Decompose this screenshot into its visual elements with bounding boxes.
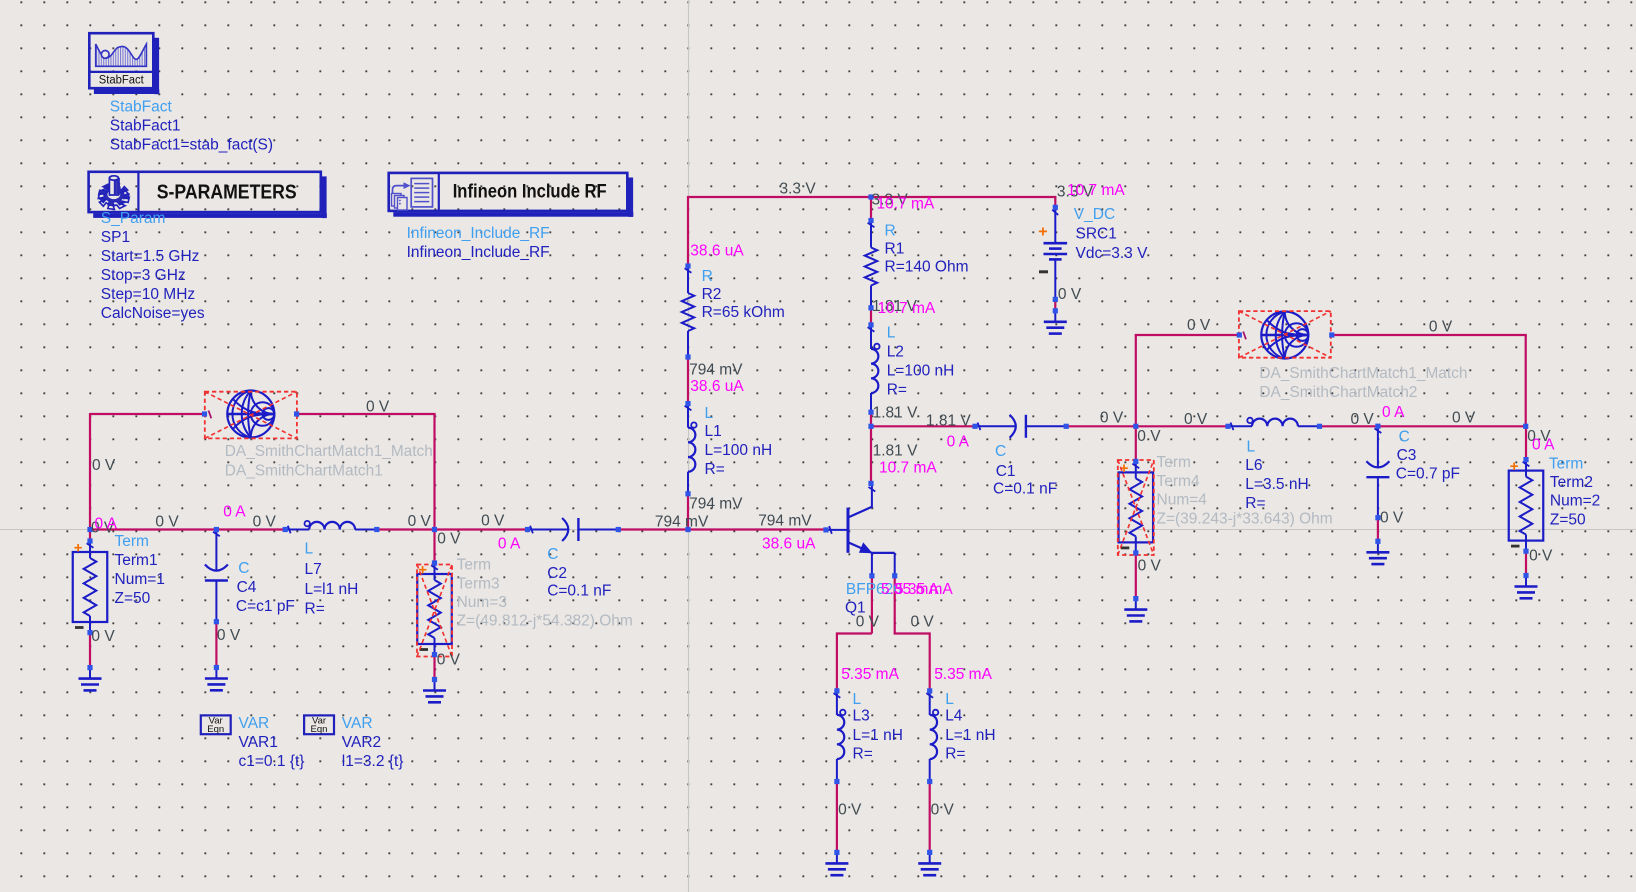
- svg-text:Term: Term: [1157, 454, 1191, 471]
- svg-text:0 V: 0 V: [1138, 558, 1162, 575]
- svg-text:C=0.1 nF: C=0.1 nF: [993, 481, 1057, 498]
- svg-text:Num=4: Num=4: [1157, 492, 1208, 509]
- svg-text:L4: L4: [945, 708, 963, 725]
- svg-text:1.81 V: 1.81 V: [873, 405, 918, 422]
- svg-text:SP1: SP1: [101, 229, 130, 246]
- svg-text:StabFact1=stab_fact(S): StabFact1=stab_fact(S): [110, 137, 273, 154]
- svg-text:L=3.5 nH: L=3.5 nH: [1245, 476, 1308, 493]
- svg-text:0 V: 0 V: [1380, 510, 1404, 527]
- svg-text:0 V: 0 V: [217, 627, 241, 644]
- svg-text:R=: R=: [1245, 495, 1265, 512]
- svg-text:10.7 mA: 10.7 mA: [878, 300, 936, 317]
- svg-text:L=1 nH: L=1 nH: [853, 727, 903, 744]
- svg-text:Z=(39.243-j*33.643) Ohm: Z=(39.243-j*33.643) Ohm: [1157, 511, 1333, 528]
- svg-text:0 V: 0 V: [92, 457, 116, 474]
- svg-text:c1=0.1 {t}: c1=0.1 {t}: [239, 753, 305, 770]
- svg-text:StabFact: StabFact: [99, 75, 145, 87]
- svg-text:Vdc=3.3 V: Vdc=3.3 V: [1076, 245, 1149, 262]
- svg-text:Term1: Term1: [115, 552, 158, 569]
- svg-text:0 V: 0 V: [838, 802, 862, 819]
- svg-text:DA_SmithChartMatch2: DA_SmithChartMatch2: [1259, 384, 1417, 401]
- svg-text:10.7 mA: 10.7 mA: [877, 196, 935, 213]
- svg-text:0 V: 0 V: [366, 399, 390, 416]
- svg-text:Z=50: Z=50: [1550, 512, 1586, 529]
- svg-text:794 mV: 794 mV: [689, 362, 743, 379]
- svg-text:794 mV: 794 mV: [758, 513, 812, 530]
- svg-text:+: +: [1510, 458, 1519, 475]
- svg-text:C: C: [1399, 429, 1410, 446]
- svg-text:Infineon Include RF: Infineon Include RF: [453, 181, 607, 202]
- svg-text:C=0.7 pF: C=0.7 pF: [1396, 466, 1460, 483]
- svg-text:10.7 mA: 10.7 mA: [1067, 182, 1125, 199]
- svg-text:L=100 nH: L=100 nH: [887, 363, 955, 380]
- svg-text:DA_SmithChartMatch1_Match: DA_SmithChartMatch1_Match: [1259, 365, 1467, 382]
- svg-text:l1=3.2 {t}: l1=3.2 {t}: [342, 753, 404, 770]
- svg-text:R1: R1: [885, 241, 905, 258]
- svg-text:C: C: [238, 560, 249, 577]
- svg-text:Eqn: Eqn: [311, 724, 328, 735]
- svg-text:1.81 V: 1.81 V: [873, 443, 918, 460]
- svg-text:0 A: 0 A: [95, 516, 118, 533]
- svg-text:V_DC: V_DC: [1074, 206, 1115, 223]
- svg-text:0 V: 0 V: [911, 614, 935, 631]
- svg-text:Term: Term: [115, 533, 149, 550]
- svg-text:R=140 Ohm: R=140 Ohm: [885, 259, 969, 276]
- svg-text:0 V: 0 V: [481, 513, 505, 530]
- svg-text:C3: C3: [1397, 447, 1417, 464]
- svg-text:C2: C2: [547, 565, 567, 582]
- svg-text:0 V: 0 V: [1452, 410, 1476, 427]
- svg-text:794 mV: 794 mV: [689, 496, 743, 513]
- svg-text:VAR: VAR: [342, 715, 373, 732]
- svg-text:Term2: Term2: [1550, 474, 1593, 491]
- svg-text:R=: R=: [945, 746, 965, 763]
- svg-text:R=: R=: [887, 382, 907, 399]
- svg-text:0 V: 0 V: [931, 802, 955, 819]
- svg-text:38.6 uA: 38.6 uA: [690, 378, 744, 395]
- svg-text:0 V: 0 V: [155, 514, 179, 531]
- svg-text:38.6 uA: 38.6 uA: [762, 536, 816, 553]
- svg-text:0 V: 0 V: [1058, 286, 1082, 303]
- svg-text:0 V: 0 V: [856, 614, 880, 631]
- svg-text:C: C: [547, 546, 558, 563]
- svg-text:0 V: 0 V: [408, 513, 432, 530]
- svg-text:0 V: 0 V: [1137, 428, 1161, 445]
- svg-text:CalcNoise=yes: CalcNoise=yes: [101, 305, 205, 322]
- svg-text:R: R: [885, 223, 896, 240]
- svg-text:Eqn: Eqn: [207, 724, 224, 735]
- svg-text:0 V: 0 V: [1429, 319, 1453, 336]
- svg-text:C=c1 pF: C=c1 pF: [236, 598, 295, 615]
- svg-text:794 mV: 794 mV: [655, 514, 709, 531]
- svg-text:L7: L7: [305, 561, 322, 578]
- svg-text:5.35 mA: 5.35 mA: [895, 581, 953, 598]
- svg-text:0 V: 0 V: [253, 514, 277, 531]
- svg-text:L3: L3: [853, 708, 870, 725]
- svg-text:3.3 V: 3.3 V: [780, 181, 817, 198]
- svg-text:C=0.1 nF: C=0.1 nF: [547, 583, 611, 600]
- svg-text:0 V: 0 V: [91, 628, 115, 645]
- svg-text:R=: R=: [305, 601, 325, 618]
- svg-text:0 A: 0 A: [498, 536, 521, 553]
- svg-text:Z=(49.812-j*54.382) Ohm: Z=(49.812-j*54.382) Ohm: [457, 613, 633, 630]
- svg-text:C1: C1: [996, 463, 1016, 480]
- svg-text:S-PARAMETERS: S-PARAMETERS: [157, 181, 297, 203]
- svg-text:VAR: VAR: [239, 715, 270, 732]
- svg-text:DA_SmithChartMatch1_Match: DA_SmithChartMatch1_Match: [225, 443, 433, 460]
- svg-text:0 V: 0 V: [1187, 317, 1211, 334]
- svg-text:StabFact: StabFact: [110, 99, 173, 116]
- svg-text:0 V: 0 V: [1529, 548, 1553, 565]
- svg-text:L: L: [1247, 439, 1256, 456]
- svg-text:+: +: [74, 540, 83, 557]
- svg-text:5.35 mA: 5.35 mA: [934, 666, 992, 683]
- svg-text:L: L: [853, 691, 862, 708]
- svg-text:0 V: 0 V: [437, 652, 461, 669]
- svg-text:SRC1: SRC1: [1076, 226, 1117, 243]
- svg-text:L6: L6: [1245, 457, 1262, 474]
- svg-text:0 A: 0 A: [1382, 404, 1405, 421]
- svg-text:Infineon_Include_RF: Infineon_Include_RF: [407, 244, 550, 261]
- svg-text:L: L: [945, 691, 954, 708]
- svg-text:R=65 kOhm: R=65 kOhm: [702, 304, 785, 321]
- svg-text:StabFact1: StabFact1: [110, 118, 181, 135]
- svg-text:Num=1: Num=1: [115, 571, 165, 588]
- svg-text:R=: R=: [853, 746, 873, 763]
- svg-text:Stop=3 GHz: Stop=3 GHz: [101, 267, 186, 284]
- svg-text:Num=3: Num=3: [457, 594, 507, 611]
- svg-text:VAR2: VAR2: [342, 734, 381, 751]
- svg-text:R2: R2: [702, 286, 722, 303]
- svg-text:0 A: 0 A: [1532, 437, 1555, 454]
- svg-text:0 A: 0 A: [223, 504, 246, 521]
- svg-text:L1: L1: [705, 423, 722, 440]
- svg-text:0 A: 0 A: [947, 434, 970, 451]
- svg-text:Term: Term: [1549, 456, 1583, 473]
- svg-text:C4: C4: [237, 579, 257, 596]
- svg-text:Z=50: Z=50: [115, 590, 151, 607]
- svg-text:S_Param: S_Param: [101, 210, 166, 227]
- svg-text:L: L: [705, 405, 714, 422]
- svg-text:Start=1.5 GHz: Start=1.5 GHz: [101, 248, 200, 265]
- svg-text:R=: R=: [705, 461, 725, 478]
- svg-text:Step=10 MHz: Step=10 MHz: [101, 286, 195, 303]
- svg-text:Infineon_Include_RF: Infineon_Include_RF: [407, 225, 550, 242]
- svg-text:Num=2: Num=2: [1550, 493, 1600, 510]
- svg-text:1.81 V: 1.81 V: [926, 413, 971, 430]
- svg-text:10.7 mA: 10.7 mA: [879, 460, 937, 477]
- svg-text:R: R: [702, 268, 713, 285]
- svg-text:C: C: [995, 443, 1006, 460]
- svg-text:+: +: [1038, 224, 1047, 241]
- svg-text:0 V: 0 V: [437, 531, 461, 548]
- svg-text:38.6 uA: 38.6 uA: [690, 243, 744, 260]
- svg-text:L=1 nH: L=1 nH: [945, 727, 995, 744]
- svg-text:5.35 mA: 5.35 mA: [841, 666, 899, 683]
- svg-text:DA_SmithChartMatch1: DA_SmithChartMatch1: [225, 463, 383, 480]
- svg-text:Term3: Term3: [457, 576, 500, 593]
- svg-text:L=l1 nH: L=l1 nH: [305, 581, 359, 598]
- svg-text:Term4: Term4: [1157, 473, 1200, 490]
- svg-text:Term: Term: [457, 557, 491, 574]
- svg-text:L: L: [305, 541, 314, 558]
- svg-text:L=100 nH: L=100 nH: [705, 442, 773, 459]
- svg-text:0 V: 0 V: [1100, 410, 1124, 427]
- svg-text:0 V: 0 V: [1184, 411, 1208, 428]
- svg-text:VAR1: VAR1: [239, 734, 278, 751]
- svg-text:L: L: [887, 325, 896, 342]
- svg-text:L2: L2: [887, 344, 904, 361]
- svg-text:0 V: 0 V: [1351, 411, 1375, 428]
